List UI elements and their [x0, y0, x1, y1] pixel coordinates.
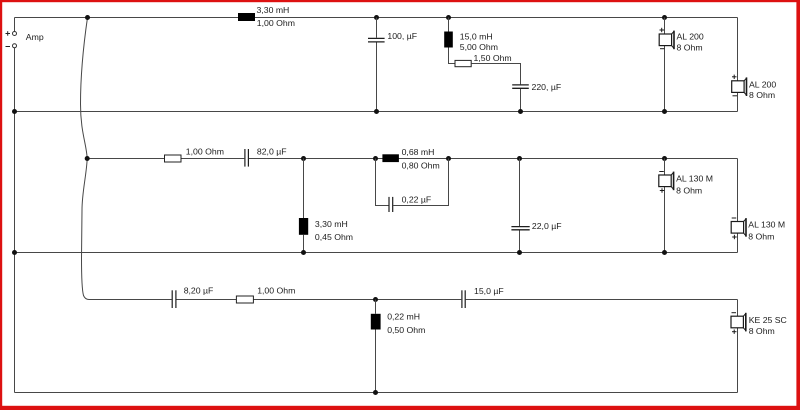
- resistor 1,50 Ohm: [455, 60, 471, 66]
- red frame right: [796, 0, 800, 410]
- svg-text:1,50 Ohm: 1,50 Ohm: [474, 53, 512, 63]
- inductor 15,0 mH vertical with series wiring: [449, 18, 456, 64]
- node dot bottom rail / shunt: [373, 390, 378, 395]
- label + sign: [6, 31, 11, 36]
- node dot mid minus rail / AL 130 M #1: [662, 250, 667, 255]
- svg-text:1,00 Ohm: 1,00 Ohm: [257, 286, 295, 296]
- wire: curvy feed from mid rail node down to tweeter branch: [82, 159, 90, 300]
- svg-text:0,22 mH: 0,22 mH: [387, 311, 420, 321]
- inductor 0,22 mH shunt: [375, 300, 377, 314]
- svg-text:0,80 Ohm: 0,80 Ohm: [402, 160, 440, 170]
- wire: KE 25 SC bottom to bottom rail: [737, 328, 739, 393]
- inductor 0,68 mH: [382, 154, 399, 162]
- wire: section1 minus rail: [15, 111, 738, 113]
- wire: mid minus rail: [15, 252, 738, 254]
- node dot left wire / section1 minus rail: [12, 109, 17, 114]
- svg-text:8,20 µF: 8,20 µF: [184, 286, 214, 296]
- svg-text:1,00 Ohm: 1,00 Ohm: [186, 147, 224, 157]
- node dot mid rail / 22 uF: [517, 156, 522, 161]
- svg-text:15,0 mH: 15,0 mH: [460, 31, 493, 41]
- svg-text:15,0 µF: 15,0 µF: [474, 286, 504, 296]
- wire: bottom rail: [15, 392, 738, 394]
- svg-text:0,68 mH: 0,68 mH: [402, 147, 435, 157]
- wire: tweeter branch left segment to 8,2 uF: [89, 299, 172, 301]
- svg-text:AL 130 M: AL 130 M: [676, 173, 713, 183]
- red frame bottom: [0, 406, 800, 410]
- capacitor 8,20 uF series tweeter: [172, 290, 176, 308]
- svg-text:0,45 Ohm: 0,45 Ohm: [315, 232, 353, 242]
- wire: AL 200 #2 bottom to minus rail: [737, 92, 739, 112]
- svg-text:8 Ohm: 8 Ohm: [748, 232, 774, 242]
- wire: right drop from top rail to AL 200 #2: [737, 18, 739, 81]
- svg-text:Amp: Amp: [26, 32, 44, 42]
- wire: curvy feed from top rail node down to mid rail node: [81, 18, 88, 159]
- svg-text:AL 200: AL 200: [677, 31, 704, 41]
- capacitor 220 uF: [512, 85, 529, 88]
- svg-text:1,00 Ohm: 1,00 Ohm: [257, 18, 295, 28]
- node dot mid minus rail / shunt: [301, 250, 306, 255]
- svg-text:3,30 mH: 3,30 mH: [315, 219, 348, 229]
- svg-text:AL 200: AL 200: [749, 79, 776, 89]
- wire: AL 200 #1 from top rail to minus rail: [664, 18, 666, 112]
- node dot top rail / AL 200 #1: [662, 15, 667, 20]
- svg-text:8 Ohm: 8 Ohm: [676, 185, 702, 195]
- terminal + circle: [13, 32, 17, 36]
- capacitor 0,22 uF plates: [389, 197, 393, 212]
- node dot parallel group right: [446, 156, 451, 161]
- speaker AL 200 #1: [659, 28, 674, 49]
- node dot mid rail / AL 130 M #1: [662, 156, 667, 161]
- capacitor 100 uF shunt: [376, 18, 378, 112]
- capacitor 82,0 uF series: [245, 149, 249, 167]
- svg-text:KE 25 SC: KE 25 SC: [749, 315, 787, 325]
- capacitor 0,22 uF parallel branch wiring: [376, 159, 449, 206]
- red frame top: [0, 0, 800, 2]
- capacitor 15,0 uF series tweeter: [462, 290, 465, 308]
- wire: right drop from mid rail to AL 130 M #2: [737, 159, 739, 222]
- wire: left vertical from - terminal down to bottom rail: [14, 48, 16, 393]
- inductor 3,30 mH shunt vertical: [303, 159, 305, 219]
- node dot minus rail / 100uF: [374, 109, 379, 114]
- terminal - circle: [13, 44, 17, 48]
- red frame left: [0, 0, 2, 410]
- node dot tweeter branch / shunt 0,22 mH: [373, 297, 378, 302]
- wire: mid rail left segment to 82 uF: [87, 158, 244, 160]
- svg-text:0,22 µF: 0,22 µF: [402, 195, 432, 205]
- capacitor 22,0 uF plates: [511, 227, 529, 230]
- svg-text:0,50 Ohm: 0,50 Ohm: [387, 325, 425, 335]
- node dot minus rail / AL 200 #1: [662, 109, 667, 114]
- svg-text:100, µF: 100, µF: [387, 31, 417, 41]
- svg-text:220, µF: 220, µF: [532, 82, 562, 92]
- svg-text:22,0 µF: 22,0 µF: [532, 221, 562, 231]
- node dot mid rail start: [85, 156, 90, 161]
- node dot mid minus rail / 22 uF: [517, 250, 522, 255]
- node dot left wire / mid minus rail: [12, 250, 17, 255]
- node dot top rail / 15 mH branch: [446, 15, 451, 20]
- speaker KE 25 SC (inverted polarity): [731, 313, 746, 334]
- speaker AL 130 M #1 (inverted polarity): [659, 172, 674, 193]
- svg-text:8 Ohm: 8 Ohm: [749, 90, 775, 100]
- svg-text:8 Ohm: 8 Ohm: [677, 43, 703, 53]
- wire: tweeter branch segment 8,2 uF to 15 uF: [176, 299, 461, 301]
- svg-text:3,30 mH: 3,30 mH: [257, 5, 290, 15]
- svg-text:8 Ohm: 8 Ohm: [749, 326, 775, 336]
- resistor 1,00 Ohm mid: [165, 155, 182, 162]
- svg-text:82,0 µF: 82,0 µF: [257, 147, 287, 157]
- capacitor 22,0 uF shunt wiring: [519, 159, 521, 253]
- wire: tweeter branch segment 15 uF to KE 25 SC corner: [466, 299, 738, 301]
- speaker AL 130 M #2 (inverted polarity): [731, 218, 746, 239]
- wire: AL 130 M #1 from mid rail to mid minus rail: [664, 159, 666, 253]
- node dot minus rail / 220uF: [518, 109, 523, 114]
- wire: mid rail segment from 82 uF to AL 130 M corner: [249, 158, 738, 160]
- wire: AL 130 M #2 bottom to mid minus rail: [737, 233, 739, 253]
- node dot top rail / curvy feed: [85, 15, 90, 20]
- resistor 1,00 Ohm tweeter: [236, 296, 253, 303]
- wire: right drop from tweeter branch to KE 25 SC: [737, 300, 739, 317]
- wire: top plus rail: [15, 17, 738, 19]
- node dot parallel group left: [373, 156, 378, 161]
- wire: left vertical from + terminal up to top rail: [14, 18, 16, 32]
- svg-text:5,00 Ohm: 5,00 Ohm: [460, 42, 498, 52]
- speaker AL 200 #2: [732, 75, 747, 96]
- label - sign: [6, 46, 11, 48]
- node dot top rail / 100 uF: [374, 15, 379, 20]
- node dot mid rail / shunt 3,30 mH: [301, 156, 306, 161]
- svg-text:AL 130 M: AL 130 M: [748, 220, 785, 230]
- wire from 1,50 Ohm to 220 uF: [471, 64, 520, 112]
- inductor 3,30 mH on top rail: [238, 13, 255, 21]
